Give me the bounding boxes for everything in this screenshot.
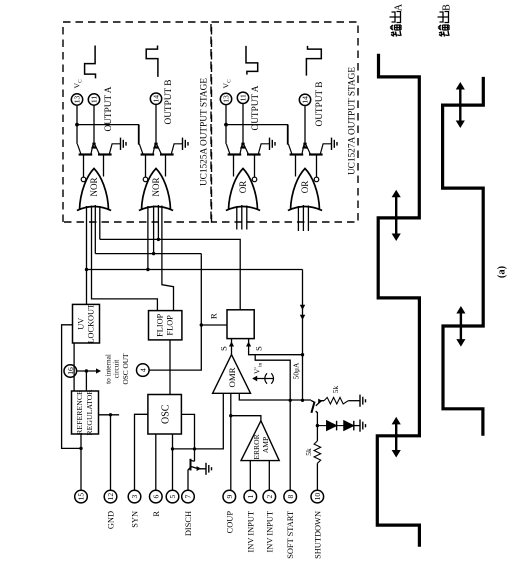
- node output junction, cell 2: [154, 142, 157, 145]
- pin 7: [182, 490, 195, 503]
- svg-text:OUTPUT B: OUTPUT B: [164, 79, 174, 124]
- wire gate output to transistor base, cell 3: [233, 155, 235, 177]
- svg-text:2: 2: [265, 494, 274, 498]
- svg-text:LOCKOUT: LOCKOUT: [87, 304, 96, 344]
- svg-text:SHUTDOWN: SHUTDOWN: [313, 511, 322, 559]
- node Vc junction cell3: [224, 123, 228, 127]
- wire 50uA line: [302, 270, 304, 401]
- op-amp ERROR AMP: [241, 421, 279, 461]
- transistor Q1b (bottom): [98, 153, 112, 155]
- svg-text:13: 13: [222, 95, 231, 103]
- OR gate 4: [291, 169, 320, 210]
- label shuchu A (output A): [391, 31, 401, 37]
- svg-text:10: 10: [313, 493, 322, 501]
- NOR gate 1: [80, 169, 109, 210]
- pin 4: [137, 364, 150, 377]
- wire base from soft-start node / comparator clamp input: [239, 393, 311, 400]
- ground emitter: [359, 395, 361, 407]
- node output junction, cell 4: [303, 142, 306, 145]
- wire output A to pin 11: [93, 106, 95, 142]
- transistor Q4b (bottom): [309, 153, 323, 155]
- transistor Q shutdown: [311, 402, 314, 413]
- svg-text:C: C: [227, 79, 233, 83]
- wire pin13 to Vc rail cell3: [225, 105, 227, 124]
- wire pin5 CT: [172, 434, 174, 490]
- svg-text:circuit: circuit: [112, 360, 121, 379]
- svg-text:OUTPUT B: OUTPUT B: [315, 81, 325, 126]
- svg-text:REFERENCE: REFERENCE: [75, 390, 84, 435]
- ground, cell 4: [331, 138, 333, 150]
- wire resistor to diode node: [316, 426, 318, 441]
- node output junction, cell 1: [92, 142, 95, 145]
- UC1525A output stage dashed box: [63, 22, 211, 222]
- node CT branch: [171, 447, 174, 450]
- wire output B to pin 14 cell2: [155, 105, 157, 142]
- node on latch bus: [157, 238, 160, 241]
- pin 14: [299, 94, 310, 105]
- wire pin1 inv input to error amp: [249, 461, 251, 491]
- wire pin3 SYN to OSC: [135, 414, 148, 490]
- node osc discharge junction: [193, 447, 196, 450]
- wire pin7 DISCH to transistor base: [188, 468, 190, 491]
- wire output B to pin 14 cell4: [304, 106, 306, 142]
- pin 11: [237, 92, 248, 103]
- wire output A to pin 11 cell3: [242, 104, 244, 142]
- wire collector to Vc rail, cell 1: [76, 125, 78, 144]
- node 50uA left T: [301, 399, 304, 402]
- waveform glyph output A 1527: [246, 46, 258, 75]
- wire pin15 Vin to reference regulator: [80, 434, 82, 490]
- pin 5: [166, 490, 179, 503]
- svg-text:13: 13: [73, 96, 82, 104]
- comparator OMR: [213, 355, 251, 394]
- wire pin10 shutdown to resistor: [316, 463, 318, 490]
- svg-text:INV INPUT: INV INPUT: [265, 511, 274, 553]
- pin 10: [311, 490, 324, 503]
- wire osc to CT node: [181, 414, 194, 461]
- diode D2: [337, 425, 344, 427]
- ground, cell 3: [269, 138, 271, 150]
- svg-text:OUTPUT A: OUTPUT A: [104, 86, 114, 131]
- wire collector to Vc rail, cell 3: [225, 125, 227, 144]
- inverter bubble on gate 3: [252, 177, 257, 182]
- pin 13: [220, 93, 231, 104]
- inverter bubble on gate 1: [81, 177, 86, 182]
- ground, cell 1: [120, 138, 122, 150]
- pin 14: [150, 93, 161, 104]
- waveform trace output B: [443, 77, 484, 436]
- node output junction, cell 3: [241, 142, 244, 145]
- svg-text:B: B: [442, 4, 453, 11]
- pin 3: [128, 490, 141, 503]
- wire Vc rail cells 1-2: [77, 125, 139, 145]
- svg-text:A: A: [394, 3, 405, 11]
- svg-text:5k: 5k: [304, 448, 313, 456]
- svg-text:COUP: COUP: [225, 511, 234, 534]
- wire pin8 soft start: [255, 355, 290, 491]
- svg-text:(a): (a): [497, 265, 508, 278]
- block UV LOCKOUT: [73, 304, 100, 343]
- wire pin12 GND: [110, 415, 112, 491]
- latch output bus: [100, 239, 240, 309]
- svg-text:REGULATOR: REGULATOR: [85, 389, 94, 436]
- wire emitter resistor to ground: [348, 400, 360, 402]
- PWM arrow A1: [395, 421, 397, 453]
- wire latch Q to NOR1 input: [99, 206, 101, 239]
- wire UV lockout output to NOR1 input (y=86.5): [86, 206, 88, 304]
- wire reference regulator to UV lockout: [73, 343, 75, 391]
- node on osc bus: [152, 252, 155, 255]
- svg-text:OMR: OMR: [227, 367, 237, 387]
- wire bubble to transistor base, cell 2: [145, 155, 147, 178]
- waveform glyph output B 1527: [306, 46, 321, 76]
- wire bubble to transistor base, cell 4: [316, 155, 318, 178]
- svg-text:SOFT START: SOFT START: [286, 511, 295, 559]
- wire collector to Vc rail, cell 4: [287, 125, 289, 144]
- svg-text:SYN: SYN: [131, 511, 140, 528]
- wire OSC to FLIP FLOP: [169, 340, 171, 395]
- svg-text:S: S: [219, 346, 229, 351]
- svg-text:INV INPUT: INV INPUT: [246, 511, 255, 553]
- svg-text:9: 9: [225, 494, 234, 498]
- svg-text:R: R: [152, 511, 161, 517]
- wire shutdown/UV to NOR2 input: [147, 206, 149, 270]
- waveform glyph output B 1525: [146, 46, 158, 77]
- inverter bubble on gate 2: [143, 177, 148, 182]
- wire diodes to ground: [354, 425, 360, 427]
- svg-text:NOR: NOR: [151, 177, 161, 196]
- pin 2: [263, 490, 276, 503]
- waveform glyph output A 1525: [85, 46, 96, 79]
- OR gate 3: [229, 169, 258, 210]
- wire pin9 COMP to comparator input: [230, 393, 232, 490]
- arrow into S: [229, 342, 234, 347]
- svg-text:6: 6: [152, 494, 161, 498]
- svg-text:12: 12: [106, 493, 115, 501]
- transistor Q4a (top): [290, 153, 304, 155]
- wire latch Q to NOR2 input: [157, 205, 159, 239]
- PWM arrow B2: [459, 87, 461, 124]
- wire bubble to transistor base, cell 3: [254, 155, 256, 178]
- svg-text:R: R: [209, 313, 219, 319]
- block REFERENCE REGULATOR: [72, 391, 99, 434]
- svg-text:16: 16: [66, 367, 75, 375]
- svg-text:50μA: 50μA: [292, 362, 301, 379]
- transistor Q2b (bottom): [160, 153, 174, 155]
- svg-text:in: in: [258, 363, 264, 367]
- svg-text:OR: OR: [300, 181, 310, 194]
- NOR gate 2: [142, 169, 171, 210]
- node on shutdown bus: [146, 268, 149, 271]
- wire shutdown transistor collector: [316, 411, 318, 425]
- svg-text:8: 8: [286, 494, 295, 498]
- svg-text:UV: UV: [77, 318, 86, 330]
- diode D1: [317, 425, 326, 427]
- svg-text:7: 7: [184, 494, 193, 498]
- transistor Q2a (top): [141, 153, 155, 155]
- osc blanking bus: [95, 253, 201, 255]
- pin 12: [104, 490, 117, 503]
- svg-text:11: 11: [90, 96, 99, 104]
- wire pin2 ni input to error amp: [268, 461, 270, 491]
- inverter bubble on gate 4: [314, 177, 319, 182]
- node Vin branch: [79, 447, 82, 450]
- node gnd junction: [109, 413, 112, 416]
- wire gate output to transistor base, cell 4: [295, 155, 297, 177]
- arrow Vin current source: [253, 378, 274, 380]
- svg-text:FLOP: FLOP: [165, 315, 174, 336]
- wire pin6 RT to OSC: [155, 434, 157, 490]
- node error output / pin9: [229, 414, 232, 417]
- ground discharge transistor: [205, 463, 207, 475]
- wire pin13 to Vc rail cell1: [76, 106, 78, 125]
- pin 15: [75, 490, 88, 503]
- node R tap: [200, 323, 203, 326]
- wire osc bus corner join: [200, 254, 202, 256]
- pin 16: [64, 365, 77, 378]
- shutdown bus: [87, 269, 303, 271]
- svg-text:FLIOP: FLIOP: [155, 313, 164, 336]
- svg-text:14: 14: [152, 95, 161, 103]
- arrow 50uA 2: [300, 305, 305, 310]
- svg-text:AMP: AMP: [261, 437, 270, 453]
- svg-text:OUTPUT A: OUTPUT A: [251, 85, 261, 130]
- PWM arrow B1: [460, 311, 462, 343]
- node Vref branch: [85, 369, 88, 372]
- wire ref regulator ground stub: [99, 414, 120, 416]
- svg-text:ERROR: ERROR: [252, 433, 261, 459]
- arrow into S2: [246, 342, 251, 347]
- wire CT down to ramp: [173, 393, 224, 449]
- wire gate output to transistor base, cell 1: [103, 155, 105, 177]
- wire Vin to UV lockout: [62, 325, 81, 449]
- arrow to internal circuit: [96, 368, 101, 373]
- pin 9: [223, 490, 236, 503]
- wire ref regulator to pin16: [85, 371, 87, 391]
- wire soft-start/shutdown to latch S2: [249, 339, 303, 355]
- transistor Q discharge: [190, 459, 192, 471]
- svg-text:UC1527A OUTPUT STAGE: UC1527A OUTPUT STAGE: [348, 67, 358, 175]
- wire gate output to transistor base, cell 2: [165, 155, 167, 177]
- pin 8: [284, 490, 297, 503]
- UC1527A output stage dashed box: [212, 22, 359, 222]
- pin 6: [150, 490, 163, 503]
- resistor 5k shutdown: [314, 441, 321, 463]
- node shutdown bus tap on UV line: [85, 268, 88, 271]
- pin 13: [71, 94, 82, 105]
- svg-text:S: S: [254, 346, 264, 351]
- wire Vc rail cells 3-4: [226, 125, 288, 145]
- wire collector to Vc rail, cell 2: [138, 125, 140, 144]
- transistor Q3b (bottom): [247, 153, 261, 155]
- input stubs OR gate 4: [297, 206, 299, 231]
- svg-text:NOR: NOR: [89, 177, 99, 196]
- svg-text:UC1525A OUTPUT STAGE: UC1525A OUTPUT STAGE: [200, 78, 210, 186]
- arrow 50uA: [300, 315, 305, 320]
- ground, cell 2: [182, 138, 184, 150]
- node diode junction: [316, 424, 319, 427]
- wire comparator output to latch S: [231, 339, 233, 355]
- ground diodes: [359, 420, 361, 432]
- transistor Q1a (top): [79, 153, 93, 155]
- svg-text:OSC: OSC: [160, 404, 171, 424]
- wire error amp output up to comp input: [231, 416, 261, 421]
- node S2/softstart junction: [301, 353, 304, 356]
- pin 4 OSC OUT: [137, 364, 150, 377]
- wire pin4 osc out line: [149, 255, 201, 370]
- block PWM latch: [227, 310, 254, 339]
- input stubs OR gate 3: [236, 206, 238, 230]
- svg-text:GND: GND: [107, 511, 116, 529]
- svg-text:OSC OUT: OSC OUT: [121, 353, 130, 385]
- block OSC: [148, 395, 182, 435]
- svg-text:DISCH: DISCH: [184, 511, 193, 536]
- svg-text:1: 1: [246, 494, 255, 498]
- wire pin16 Vref: [77, 370, 100, 372]
- wire bubble to transistor base, cell 1: [83, 155, 85, 178]
- pin 16 Vref: [64, 365, 77, 378]
- wire latch R input: [201, 324, 227, 326]
- svg-text:5k: 5k: [331, 386, 340, 394]
- label shuchu B (output B): [439, 31, 449, 37]
- svg-text:5: 5: [168, 494, 177, 498]
- wire osc blanking to NOR2 input: [153, 206, 155, 254]
- block FLIP FLOP: [149, 311, 182, 340]
- svg-text:11: 11: [239, 94, 248, 102]
- resistor 5k emitter: [324, 397, 348, 404]
- pin 1: [244, 490, 257, 503]
- svg-text:3: 3: [130, 494, 139, 498]
- svg-text:4: 4: [139, 368, 148, 372]
- svg-text:15: 15: [77, 493, 86, 501]
- transistor Q3a (top): [228, 153, 242, 155]
- PWM arrow A2: [395, 194, 397, 236]
- node soft start branch: [289, 399, 292, 402]
- pin 11: [88, 94, 99, 105]
- wire FF Qbar to NOR2 input (with jog): [162, 206, 174, 311]
- wire FF Q to NOR1 input: [92, 206, 158, 311]
- svg-text:C: C: [78, 79, 84, 83]
- waveform trace output A: [377, 54, 419, 547]
- node Vc junction cell1: [75, 123, 79, 127]
- wire osc blanking to NOR1 input: [94, 205, 96, 254]
- svg-text:14: 14: [301, 96, 310, 104]
- svg-text:OR: OR: [238, 181, 248, 194]
